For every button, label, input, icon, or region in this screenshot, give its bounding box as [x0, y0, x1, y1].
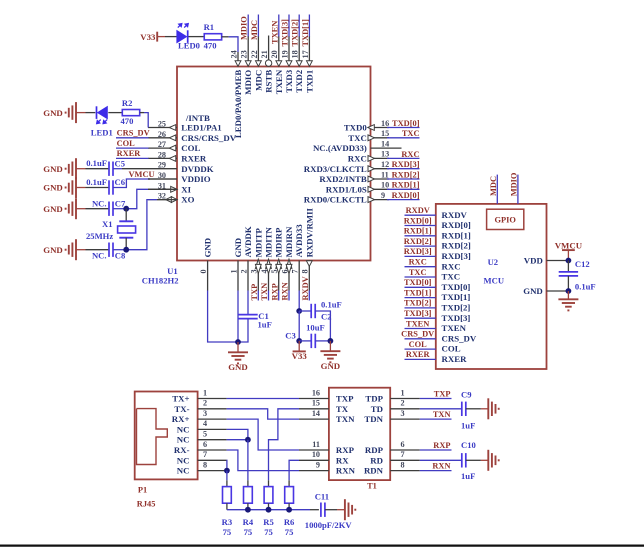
wire P1.5 to node A [227, 439, 248, 441]
ground (C9) [488, 398, 498, 419]
crystal X1 25MHz [86, 209, 136, 250]
svg-text:16: 16 [312, 388, 320, 397]
svg-text:MDIRN: MDIRN [284, 226, 294, 257]
svg-text:RD: RD [370, 455, 383, 465]
svg-text:MDC: MDC [489, 176, 498, 196]
svg-text:1: 1 [229, 269, 238, 273]
net label TXP (T1 right) [420, 390, 452, 399]
U1 pin 28 RXER [148, 150, 207, 163]
svg-text:MDC: MDC [250, 20, 259, 40]
net label RXER wire (U2 left) [405, 350, 436, 359]
node GND junction (C12) [566, 288, 572, 294]
svg-text:TXD[1]: TXD[1] [404, 288, 432, 297]
U1 pin 29 DVDDK [148, 161, 214, 174]
U1 pin 0 GND (bottom) [199, 238, 213, 291]
T1 pin 1 TDP (right) [365, 388, 419, 403]
U1 pin 15 TXC [348, 129, 389, 143]
svg-text:MDITP: MDITP [253, 227, 263, 257]
U2 pin RXC [442, 261, 461, 271]
svg-text:RXN: RXN [432, 462, 450, 471]
U1 pin 17 TXD1 (top) [301, 36, 315, 93]
svg-text:RX+: RX+ [172, 414, 190, 424]
U2 pin COL [442, 344, 461, 354]
svg-text:15: 15 [312, 399, 320, 408]
svg-text:C8: C8 [115, 251, 126, 261]
U1 pin 9 RXD0/CLKCTL [304, 191, 389, 205]
svg-text:RXC: RXC [401, 150, 419, 159]
capacitor C12 0.1uF [559, 259, 596, 291]
wire GND to C6 [86, 187, 110, 189]
svg-text:1000pF/2KV: 1000pF/2KV [305, 520, 353, 530]
svg-text:75: 75 [223, 527, 232, 537]
T1 pin 10 RX (left) [299, 450, 349, 465]
net label TXEN wire (U2 left) [405, 319, 436, 328]
wire C9 to chassis ground [466, 408, 489, 410]
svg-text:NC.: NC. [92, 198, 107, 208]
node XTAL1 junction [123, 206, 129, 212]
net label VMCU (pin 30 wire) [129, 170, 155, 179]
net label CRS_DV wire (U1 left) [116, 129, 150, 138]
svg-text:RXD[1]: RXD[1] [392, 181, 420, 190]
wire termination rail to C11 [227, 509, 319, 511]
svg-text:1uF: 1uF [258, 320, 272, 330]
wire RX- P1.6 to T1.9 [227, 450, 299, 471]
svg-text:TXC: TXC [409, 268, 427, 277]
svg-text:RX: RX [336, 455, 349, 465]
wire MDC to U2 [496, 175, 498, 204]
node VDD junction [566, 258, 572, 264]
wire to C2 [299, 310, 311, 312]
net label RXC on U1 pin 13 wire [387, 150, 420, 159]
T1 pin 3 TDN (right) [364, 409, 419, 424]
LED D-LED1 [91, 106, 113, 137]
net label RXD[3] wire (U2 left) [404, 247, 436, 256]
svg-text:RXD[3]: RXD[3] [442, 251, 471, 261]
svg-text:TXD3: TXD3 [284, 69, 294, 93]
svg-text:RXP: RXP [270, 283, 279, 300]
wire node B down to R3 [226, 471, 228, 481]
svg-text:CH182H2: CH182H2 [142, 276, 179, 286]
resistor R4 75 [243, 480, 254, 537]
net label RXD[1] wire (U2 left) [404, 227, 436, 236]
capacitor C9 1uF [461, 389, 475, 430]
wire C5 to U1 pin 29 [113, 168, 148, 170]
svg-text:TX+: TX+ [172, 394, 189, 404]
connector P1 RJ45 body [135, 392, 198, 509]
net label RXD[3] on U1 pin 12 wire [387, 160, 420, 169]
wire U1 pin 1 GND down [237, 291, 239, 343]
svg-text:GND: GND [43, 204, 63, 214]
svg-text:C9: C9 [461, 389, 472, 399]
capacitor C3 10uF [285, 322, 324, 348]
svg-text:RXER: RXER [442, 354, 468, 364]
svg-text:TXP: TXP [336, 394, 354, 404]
svg-text:470: 470 [204, 41, 217, 51]
wire C10 to chassis ground [466, 459, 489, 461]
svg-text:VDD: VDD [524, 256, 543, 266]
svg-text:RJ45: RJ45 [137, 499, 156, 508]
svg-text:COL: COL [409, 340, 428, 349]
svg-text:R4: R4 [243, 517, 254, 527]
T1 pin 2 TD (right) [371, 399, 420, 414]
P1 pin 8 NC [177, 460, 227, 475]
svg-text:RXD[2]: RXD[2] [392, 170, 420, 179]
net label TXP (U1 bottom stub) [250, 284, 259, 301]
svg-text:TDP: TDP [365, 394, 383, 404]
svg-text:CRS/CRS_DV: CRS/CRS_DV [181, 133, 236, 143]
svg-text:R2: R2 [122, 98, 133, 108]
svg-text:TXD[2]: TXD[2] [442, 303, 471, 313]
U2 pin RXD[2] [442, 241, 471, 251]
svg-text:14: 14 [381, 139, 389, 148]
svg-text:10: 10 [312, 450, 320, 459]
svg-text:10: 10 [381, 181, 389, 190]
node rail R5 junction [266, 507, 272, 513]
node B junction (P1.7/P1.8/R3) [224, 468, 230, 474]
wire V33 to LED0 [165, 36, 177, 38]
svg-text:RXD[3]: RXD[3] [404, 247, 432, 256]
svg-text:CRS_DV: CRS_DV [442, 333, 477, 343]
svg-text:RXD[0]: RXD[0] [442, 220, 471, 230]
U2 pin GND [523, 286, 568, 296]
T1 pin 9 RXN (left) [299, 460, 356, 475]
svg-text:TXD[3]: TXD[3] [442, 313, 471, 323]
net label MDIO (U2 top) [510, 172, 519, 196]
svg-text:GND: GND [43, 108, 63, 118]
svg-text:RXD[2]: RXD[2] [404, 237, 432, 246]
svg-text:TXC: TXC [442, 272, 461, 282]
resistor R1 470 [204, 22, 222, 51]
U1 pin 10 RXD1/L0S [326, 181, 389, 195]
svg-text:MDITN: MDITN [264, 226, 274, 257]
svg-text:18: 18 [291, 50, 300, 58]
svg-text:RXD1/L0S: RXD1/L0S [326, 184, 367, 194]
svg-text:COL: COL [181, 143, 200, 153]
svg-text:C6: C6 [115, 177, 126, 187]
T1 pin 15 TX (left) [299, 399, 349, 414]
P1 pin 1 TX+ [172, 388, 226, 403]
svg-text:MDIRP: MDIRP [274, 227, 284, 257]
node GND junction (C2/C3) [328, 338, 334, 344]
U2 pin RXD[3] [442, 251, 471, 261]
svg-text:RXD[0]: RXD[0] [392, 191, 420, 200]
svg-text:0: 0 [199, 269, 208, 273]
svg-text:14: 14 [312, 409, 320, 418]
svg-text:2: 2 [401, 399, 405, 408]
svg-text:15: 15 [381, 129, 389, 138]
svg-text:75: 75 [244, 527, 253, 537]
capacitor C6 0.1uF [86, 177, 125, 195]
wire T1.2 to C9 [420, 408, 462, 410]
svg-text:C11: C11 [315, 492, 329, 502]
svg-text:LED1: LED1 [91, 128, 113, 138]
node rail R4 junction [245, 507, 251, 513]
svg-text:XI: XI [181, 184, 191, 194]
svg-text:TXD[3]: TXD[3] [281, 19, 290, 47]
net label TXD[0] wire (U2 left) [404, 278, 436, 287]
U1 pin 2 AVDDK (bottom) [239, 226, 253, 290]
svg-text:RXD[3]: RXD[3] [392, 160, 420, 169]
net label MDIO wire (top pin 23) [240, 15, 249, 41]
svg-text:TXD[0]: TXD[0] [392, 119, 420, 128]
svg-text:C10: C10 [461, 440, 476, 450]
svg-text:20: 20 [270, 50, 279, 58]
U1 pin 1 GND (bottom) [229, 238, 243, 291]
svg-text:TXC: TXC [348, 133, 367, 143]
LED D-LED0 [177, 24, 200, 51]
wire T1.7 to C10 [420, 459, 462, 461]
svg-text:RDP: RDP [365, 445, 384, 455]
svg-text:75: 75 [285, 527, 294, 537]
net label TXD[3] wire (U2 left) [404, 309, 436, 318]
power port VMCU (U2) [555, 241, 583, 261]
svg-text:17: 17 [301, 50, 310, 58]
node A junction (P1.4/P1.5/R4) [245, 437, 251, 443]
wire node A down to R4 [247, 440, 249, 481]
svg-text:1uF: 1uF [461, 421, 475, 431]
svg-text:11: 11 [312, 440, 320, 449]
svg-text:21: 21 [260, 50, 269, 58]
ground (below C12) [558, 291, 578, 310]
wire GND to LED1 [86, 112, 96, 114]
svg-text:MDIO: MDIO [240, 16, 249, 40]
net label MDC (U2 top) [489, 176, 498, 196]
net label TXC on U1 pin 15 wire [387, 129, 420, 138]
wire C2 to GND corner [315, 311, 330, 341]
U1 pin 16 TXD0 [344, 119, 389, 133]
svg-text:DVDDK: DVDDK [181, 164, 213, 174]
wire C1 to GND rail [238, 319, 248, 342]
svg-text:RXD2/INTB: RXD2/INTB [319, 174, 367, 184]
svg-text:8: 8 [203, 460, 207, 469]
svg-text:16: 16 [381, 119, 389, 128]
net label TXC wire (U2 left) [405, 268, 436, 277]
svg-text:28: 28 [158, 150, 166, 159]
svg-text:RDN: RDN [364, 466, 384, 476]
svg-text:RXN: RXN [336, 466, 356, 476]
wire U1 pin 2 AVDDK to C1 [247, 291, 249, 315]
svg-text:TXN: TXN [336, 414, 355, 424]
U1 pin 3 MDITP (bottom) [250, 227, 264, 290]
svg-text:6: 6 [401, 440, 405, 449]
svg-text:TXEN: TXEN [270, 21, 279, 44]
svg-text:TXD[2]: TXD[2] [404, 299, 432, 308]
net label RXD[1] on U1 pin 10 wire [387, 181, 420, 190]
net label COL wire (U1 left) [116, 139, 149, 148]
svg-text:RXP: RXP [336, 445, 355, 455]
wire P1.7 down to node B [226, 460, 228, 470]
ground (C10) [488, 450, 498, 471]
U1 pin 14 NC.(AVDD33) [313, 139, 402, 153]
svg-text:TXD[0]: TXD[0] [404, 278, 432, 287]
wire GND to C8 [86, 249, 110, 251]
U2 pin TXC [442, 272, 461, 282]
svg-text:470: 470 [121, 116, 134, 126]
svg-text:0.1uF: 0.1uF [321, 299, 342, 309]
svg-text:22: 22 [250, 50, 259, 58]
wire GND to C7 [86, 208, 110, 210]
capacitor C1 1uF [238, 311, 272, 330]
svg-text:GND: GND [233, 238, 243, 258]
P1 pin 3 RX+ [172, 409, 227, 424]
U2 pin TXEN [442, 323, 467, 333]
op-amp U1 CH182H2 IC body [142, 67, 371, 286]
svg-text:TXD2: TXD2 [294, 69, 304, 93]
U2 pin CRS_DV [442, 333, 477, 343]
wire U1 pin 0 GND down [208, 291, 238, 343]
svg-text:LED0: LED0 [178, 40, 200, 50]
T1 pin 6 RDP (right) [365, 440, 420, 455]
svg-text:GND: GND [43, 183, 63, 193]
net label RXD[2] on U1 pin 11 wire [387, 170, 420, 179]
svg-text:TXEN: TXEN [406, 319, 429, 328]
wire T1.15 to R5 [269, 409, 300, 481]
U2 pin RXER [442, 354, 468, 364]
capacitor C5 0.1uF [86, 158, 125, 176]
U1 pin 23 MDIO (top) [240, 36, 254, 95]
net label TXD[3] wire (top pin 19) [281, 15, 290, 47]
net label MDC wire (top pin 22) [250, 15, 259, 41]
wire GND to C5 [86, 168, 110, 170]
svg-text:0.1uF: 0.1uF [575, 281, 596, 291]
U2 pin VDD [524, 256, 569, 266]
U1 pin 27 COL [148, 140, 200, 153]
svg-text:R6: R6 [284, 517, 295, 527]
svg-text:NC: NC [177, 424, 190, 434]
svg-text:75: 75 [264, 527, 273, 537]
svg-text:RXC: RXC [409, 258, 427, 267]
svg-text:TXD[2]: TXD[2] [291, 19, 300, 47]
svg-text:RXC: RXC [442, 261, 461, 271]
power port V33 (below C3) [292, 341, 308, 361]
U1 pin 32 XO [148, 192, 195, 205]
svg-text:26: 26 [158, 130, 166, 139]
sheet bottom border [0, 544, 644, 546]
svg-text:3: 3 [203, 409, 207, 418]
wire XI to node XTAL1 [126, 189, 177, 208]
svg-text:2: 2 [239, 269, 248, 273]
svg-text:7: 7 [203, 450, 207, 459]
wire C3 to GND node [315, 340, 330, 342]
U1 pin 8 RXDV/RMII (bottom) [301, 207, 315, 290]
U2 pin TXD[3] [442, 313, 471, 323]
svg-text:1uF: 1uF [461, 471, 475, 481]
U2 pin RXD[1] [442, 230, 471, 240]
U1 pin 18 TXD2 (top) [291, 36, 305, 93]
svg-text:MDC: MDC [253, 70, 263, 91]
svg-text:TX: TX [336, 404, 349, 414]
U2 pin TXD[1] [442, 292, 471, 302]
svg-text:V33: V33 [140, 32, 156, 42]
U2 pin TXD[2] [442, 303, 471, 313]
wire AVDD33 down to V33 node [298, 311, 300, 341]
net label RXDV wire (U2 left) [405, 206, 436, 215]
svg-text:TXD[1]: TXD[1] [301, 19, 310, 47]
U1 pin 7 AVDD33 (bottom) [291, 224, 305, 291]
svg-text:MCU: MCU [484, 276, 505, 286]
ground GND (below C1) [228, 342, 248, 372]
net label TXD[2] wire (U2 left) [404, 299, 436, 308]
GPIO sub-block [487, 209, 524, 229]
svg-text:TXEN: TXEN [274, 69, 284, 94]
net label RXD[0] wire (U2 left) [404, 216, 436, 225]
ground GND (below C2/C3) [320, 341, 340, 371]
ground GND (C7 row) [43, 198, 85, 219]
svg-text:RXD[2]: RXD[2] [442, 241, 471, 251]
resistor R6 75 [284, 480, 295, 537]
U1 pin 6 MDIRN (bottom) [280, 226, 294, 291]
transformer T1 body [329, 388, 390, 491]
svg-text:25MHz: 25MHz [86, 231, 113, 241]
svg-text:TXD0: TXD0 [344, 123, 368, 133]
capacitor C10 1uF [461, 440, 476, 481]
T1 pin 16 TXP (left) [299, 388, 354, 403]
svg-text:9: 9 [316, 460, 320, 469]
svg-text:NC.: NC. [92, 250, 107, 260]
svg-text:RSTB: RSTB [264, 70, 274, 93]
net label COL wire (U2 left) [405, 340, 436, 349]
U1 pin 31 XI [148, 181, 192, 194]
net label CRS_DV wire (U2 left) [401, 330, 436, 339]
svg-text:GND: GND [523, 286, 543, 296]
svg-text:13: 13 [381, 150, 389, 159]
net label TXD[1] wire (top pin 17) [301, 15, 310, 47]
svg-text:TDN: TDN [364, 414, 383, 424]
svg-text:RXER: RXER [406, 350, 431, 359]
wire U1 pin 7 AVDD33 down [298, 291, 300, 312]
svg-text:R1: R1 [204, 22, 215, 32]
svg-text:RXD3/CLKCTL: RXD3/CLKCTL [304, 164, 367, 174]
svg-text:TD: TD [371, 404, 383, 414]
ground GND (LED1 row) [43, 102, 85, 123]
svg-text:TXN: TXN [260, 283, 269, 301]
svg-text:LED0/PA0/PMEB: LED0/PA0/PMEB [233, 70, 243, 138]
svg-text:24: 24 [229, 50, 238, 58]
svg-text:19: 19 [280, 50, 289, 58]
P1 pin 5 NC [177, 430, 227, 445]
svg-text:9: 9 [381, 191, 385, 200]
resistor R2 470 [121, 98, 140, 126]
svg-text:MDIO: MDIO [510, 172, 519, 196]
svg-text:GPIO: GPIO [494, 216, 516, 225]
svg-text:TXP: TXP [250, 284, 259, 301]
svg-text:C5: C5 [115, 158, 126, 168]
svg-text:TXD[1]: TXD[1] [442, 292, 471, 302]
svg-text:1: 1 [203, 388, 207, 397]
wire LED0 to R1 [189, 36, 205, 38]
svg-text:/INTB: /INTB [185, 113, 210, 123]
net label RXER wire (U1 left) [116, 149, 149, 158]
svg-text:NC: NC [177, 466, 190, 476]
U1 pin 21 RSTB (top) [260, 36, 274, 93]
svg-text:7: 7 [291, 269, 300, 273]
svg-text:X1: X1 [102, 219, 113, 229]
wire C8 to node XTAL2 [113, 249, 126, 251]
svg-text:VMCU: VMCU [129, 170, 155, 179]
svg-text:10uF: 10uF [306, 322, 325, 332]
wire RX+ P1.3 to T1.11 [227, 419, 299, 450]
svg-text:RXP: RXP [433, 441, 450, 450]
node rail R6 junction [286, 507, 292, 513]
P1 pin 6 RX- [174, 440, 227, 455]
svg-text:GND: GND [228, 362, 248, 372]
wire C6 to U1 pin 30 [113, 179, 177, 188]
wire TX+ P1.1 to T1.16 [227, 398, 299, 400]
svg-text:RXDV: RXDV [442, 210, 468, 220]
svg-text:RXN: RXN [281, 282, 290, 300]
U1 pin 25 LED1/PA1 [148, 113, 222, 133]
svg-text:7: 7 [401, 450, 405, 459]
